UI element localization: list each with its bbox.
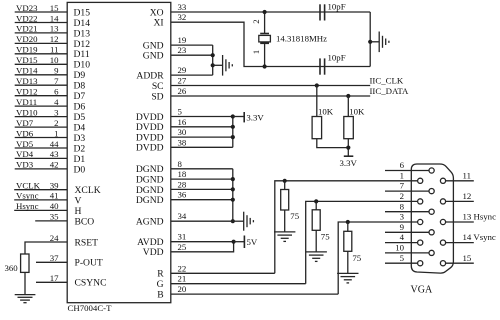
wire SC pin 27 (IIC_CLK net) bbox=[152, 76, 370, 92]
junction node ground tap bbox=[211, 63, 215, 67]
wire VD22 to U1 pin 14 (D14) bbox=[15, 13, 91, 29]
svg-text:14 Vsync: 14 Vsync bbox=[463, 232, 496, 242]
svg-text:1: 1 bbox=[400, 170, 404, 180]
wire U1 pin 36 (DGND) bbox=[136, 190, 233, 206]
svg-text:12: 12 bbox=[50, 34, 59, 44]
wire R riser to VGA pin 1 bbox=[275, 181, 418, 273]
svg-text:G: G bbox=[157, 279, 164, 290]
svg-text:R: R bbox=[157, 269, 164, 280]
wire stub VGA pin 6 bbox=[385, 160, 429, 170]
svg-text:DVDD: DVDD bbox=[136, 143, 164, 154]
svg-text:23: 23 bbox=[178, 45, 187, 55]
VGA pin 8 contact bbox=[429, 209, 434, 214]
svg-text:VD10: VD10 bbox=[16, 107, 38, 117]
svg-text:D3: D3 bbox=[74, 133, 86, 144]
resistor 10K (IIC_CLK pull-up) bbox=[312, 86, 348, 148]
wire VD14 to U1 pin 9 (D9) bbox=[15, 66, 86, 82]
resistor 75 (B terminator) bbox=[344, 222, 352, 273]
svg-text:6: 6 bbox=[54, 87, 59, 97]
wire U1 pin 5 (DVDD) bbox=[136, 107, 233, 123]
svg-text:IIC_CLK: IIC_CLK bbox=[370, 76, 404, 86]
svg-text:12: 12 bbox=[463, 191, 472, 201]
ground (75 ohm G) bbox=[306, 252, 327, 262]
svg-text:VD12: VD12 bbox=[16, 87, 38, 97]
svg-text:14.31818MHz: 14.31818MHz bbox=[276, 34, 327, 44]
wire VD21 to U1 pin 13 (D13) bbox=[15, 24, 91, 40]
svg-text:3.3V: 3.3V bbox=[246, 112, 264, 122]
svg-text:D6: D6 bbox=[74, 102, 86, 113]
svg-text:VD15: VD15 bbox=[16, 55, 38, 65]
wire U1 pin 34 (AGND) bbox=[136, 211, 233, 227]
VGA pin 12 contact bbox=[440, 199, 445, 204]
wire U1 pin 25 (VDD) bbox=[143, 242, 234, 259]
svg-text:13: 13 bbox=[50, 24, 59, 34]
svg-text:39: 39 bbox=[50, 181, 59, 191]
power 3.3V (pull-up supply) bbox=[340, 156, 358, 168]
wire XI pin 32 (bottom crystal rail) bbox=[153, 12, 370, 66]
ground (75 ohm R) bbox=[274, 232, 295, 242]
resistor 10K (IIC_DATA pull-up) bbox=[344, 96, 354, 156]
svg-text:9: 9 bbox=[400, 222, 405, 232]
svg-text:26: 26 bbox=[178, 86, 187, 96]
wire VD12 to U1 pin 6 (D7) bbox=[15, 87, 86, 103]
svg-text:D8: D8 bbox=[74, 81, 86, 92]
wire U1 pin 19 (GND) bbox=[143, 35, 213, 51]
VGA pin 15 contact bbox=[440, 261, 445, 266]
svg-text:B: B bbox=[157, 290, 163, 301]
junction node IIC_DATA/10K bbox=[346, 94, 350, 98]
resistor 360 bbox=[21, 254, 29, 294]
svg-text:44: 44 bbox=[50, 139, 59, 149]
ground (AGND) bbox=[233, 212, 254, 231]
resistor 75 (R terminator) bbox=[281, 181, 289, 232]
svg-text:VD23: VD23 bbox=[16, 3, 38, 13]
junction node DVDD bus bbox=[231, 125, 235, 129]
wire stub VGA pin 8 bbox=[385, 201, 429, 211]
svg-text:35: 35 bbox=[50, 212, 59, 222]
svg-text:VD6: VD6 bbox=[16, 128, 34, 138]
wire U1 pin 16 (DVDD) bbox=[136, 117, 233, 133]
wire VD3 to U1 pin 42 (D0) bbox=[15, 160, 86, 176]
svg-text:22: 22 bbox=[178, 263, 187, 273]
wire stub VGA pin 7 bbox=[385, 181, 429, 191]
wire to U1 pin 17 (CSYNC) bbox=[36, 273, 107, 289]
svg-text:75: 75 bbox=[290, 211, 299, 221]
wire U1 pin 29 (ADDR) bbox=[136, 65, 212, 81]
svg-text:38: 38 bbox=[178, 137, 187, 147]
svg-text:VD5: VD5 bbox=[16, 139, 34, 149]
VGA pin 4 contact bbox=[418, 240, 423, 245]
svg-text:17: 17 bbox=[50, 273, 59, 283]
svg-text:XI: XI bbox=[153, 18, 163, 29]
wire to U1 pin 37 (P-OUT) bbox=[36, 253, 103, 269]
wire VGA pin 14 Vsync bbox=[446, 232, 496, 242]
junction node GND23 bbox=[211, 53, 215, 57]
wire VD10 to U1 pin 3 (D5) bbox=[15, 107, 86, 123]
svg-text:31: 31 bbox=[178, 232, 187, 242]
svg-text:D12: D12 bbox=[74, 39, 91, 50]
VGA pin 13 contact bbox=[440, 219, 445, 224]
wire VGA pin 12 bbox=[446, 191, 474, 201]
svg-text:16: 16 bbox=[178, 117, 187, 127]
svg-text:5: 5 bbox=[178, 107, 183, 117]
wire GND/ADDR bus vertical bbox=[212, 45, 214, 75]
svg-text:27: 27 bbox=[178, 76, 187, 86]
svg-text:V: V bbox=[75, 195, 82, 206]
wire VD11 to U1 pin 4 (D6) bbox=[15, 97, 86, 113]
svg-text:VD7: VD7 bbox=[16, 118, 34, 128]
wire U1 pin 38 (DVDD) bbox=[136, 137, 233, 153]
svg-text:D0: D0 bbox=[74, 164, 86, 175]
svg-text:24: 24 bbox=[50, 233, 59, 243]
ground (75 ohm B) bbox=[337, 273, 358, 283]
svg-text:75: 75 bbox=[352, 253, 361, 263]
svg-text:D1: D1 bbox=[74, 154, 86, 165]
svg-text:10pF: 10pF bbox=[328, 2, 346, 12]
svg-text:D2: D2 bbox=[74, 143, 86, 154]
svg-text:15: 15 bbox=[50, 3, 59, 13]
wire SD pin 26 (IIC_DATA net) bbox=[151, 86, 370, 102]
svg-text:7: 7 bbox=[54, 76, 59, 86]
VGA pin 1 contact bbox=[418, 178, 423, 183]
svg-text:IIC_DATA: IIC_DATA bbox=[370, 86, 410, 96]
junction node caps/ground bbox=[368, 40, 372, 44]
svg-text:1: 1 bbox=[251, 50, 261, 54]
wire U1 pin 28 (DGND) bbox=[136, 179, 233, 195]
ground (crystal circuit) bbox=[370, 32, 389, 53]
svg-text:VD21: VD21 bbox=[16, 24, 38, 34]
wire U1 pin 18 (DGND) bbox=[136, 169, 233, 185]
svg-text:2: 2 bbox=[54, 118, 58, 128]
wire VCLK to U1 pin 39 (XCLK) bbox=[14, 181, 100, 197]
svg-text:SC: SC bbox=[152, 81, 164, 92]
power 3.3V (DVDD) bbox=[233, 112, 265, 122]
svg-text:30: 30 bbox=[178, 127, 187, 137]
svg-text:14: 14 bbox=[50, 13, 59, 23]
svg-text:VD19: VD19 bbox=[16, 45, 38, 55]
svg-text:2: 2 bbox=[400, 191, 404, 201]
crystal Y1 bbox=[259, 12, 271, 67]
wire DGND bus vertical bbox=[232, 169, 234, 221]
wire RSET to U1 pin 24 bbox=[25, 233, 98, 254]
wire XO pin 33 (top crystal rail) bbox=[150, 2, 370, 18]
svg-text:19: 19 bbox=[178, 35, 187, 45]
svg-text:VCLK: VCLK bbox=[16, 181, 41, 191]
svg-text:SD: SD bbox=[151, 91, 163, 102]
wire VGA pin 15 bbox=[446, 253, 474, 263]
IC U1 CH7004C-T body bbox=[67, 2, 171, 302]
svg-text:36: 36 bbox=[178, 190, 187, 200]
svg-text:360: 360 bbox=[5, 263, 19, 273]
wire DVDD bus vertical bbox=[232, 117, 234, 148]
VGA pin 11 contact bbox=[440, 178, 445, 183]
capacitor C1 10pF (top) bbox=[320, 2, 346, 21]
wire VD19 to U1 pin 11 (D11) bbox=[15, 45, 90, 61]
wire VGA pin 11 bbox=[446, 170, 474, 180]
svg-text:10pF: 10pF bbox=[328, 52, 346, 62]
junction node DGND bus bbox=[231, 198, 235, 202]
svg-text:D11: D11 bbox=[74, 49, 90, 60]
junction node DGND bus bbox=[231, 187, 235, 191]
wire Hsync to U1 pin 40 (H) bbox=[14, 201, 81, 217]
wire VD23 to U1 pin 15 (D15) bbox=[15, 3, 91, 19]
power 5V bbox=[234, 236, 258, 249]
svg-text:13 Hsync: 13 Hsync bbox=[463, 212, 497, 222]
svg-text:8: 8 bbox=[178, 159, 183, 169]
wire right vertical joining caps bbox=[369, 12, 371, 67]
svg-text:D14: D14 bbox=[74, 18, 91, 29]
svg-text:VD4: VD4 bbox=[16, 149, 34, 159]
junction node IIC_CLK/10K bbox=[315, 83, 319, 87]
svg-text:3: 3 bbox=[54, 107, 59, 117]
svg-text:VD11: VD11 bbox=[16, 97, 37, 107]
svg-text:P-OUT: P-OUT bbox=[75, 258, 103, 269]
wire VGA pin 13 Hsync bbox=[446, 212, 496, 222]
svg-text:32: 32 bbox=[178, 12, 187, 22]
svg-text:43: 43 bbox=[50, 149, 59, 159]
svg-text:34: 34 bbox=[178, 211, 187, 221]
svg-text:21: 21 bbox=[178, 274, 187, 284]
wire B riser to VGA pin 3 bbox=[338, 222, 418, 294]
svg-text:DGND: DGND bbox=[136, 195, 164, 206]
svg-text:25: 25 bbox=[178, 242, 187, 252]
svg-text:37: 37 bbox=[50, 253, 59, 263]
wire U1 pin 30 (DVDD) bbox=[136, 127, 233, 143]
svg-text:GND: GND bbox=[143, 51, 164, 62]
VGA pin 2 contact bbox=[418, 199, 423, 204]
VGA pin 7 contact bbox=[429, 189, 434, 194]
svg-text:6: 6 bbox=[400, 160, 405, 170]
svg-text:5: 5 bbox=[400, 253, 405, 263]
svg-text:BCO: BCO bbox=[75, 216, 95, 227]
svg-text:2: 2 bbox=[251, 19, 261, 23]
svg-text:D7: D7 bbox=[74, 91, 86, 102]
svg-text:11: 11 bbox=[463, 170, 471, 180]
svg-text:D5: D5 bbox=[74, 112, 86, 123]
wire stub VGA pin 4 bbox=[385, 232, 418, 242]
wire pin 35 to U1 pin 35 (BCO) bbox=[35, 212, 94, 228]
wire VD7 to U1 pin 2 (D4) bbox=[15, 118, 86, 134]
junction node XO/crystal bbox=[263, 10, 267, 14]
junction node XI/crystal bbox=[263, 64, 267, 68]
svg-text:VD22: VD22 bbox=[16, 13, 38, 23]
VGA pin 14 contact bbox=[440, 240, 445, 245]
svg-text:3: 3 bbox=[400, 212, 405, 222]
svg-text:D10: D10 bbox=[74, 60, 91, 71]
svg-text:10: 10 bbox=[395, 243, 404, 253]
VGA pin 10 contact bbox=[429, 250, 434, 255]
wire U1 pin 20 (B) bbox=[157, 284, 338, 300]
wire U1 pin 8 (DGND) bbox=[136, 159, 233, 175]
capacitor C2 10pF (bottom) bbox=[320, 52, 346, 74]
wire stub VGA pin 5 bbox=[385, 253, 418, 263]
svg-text:11: 11 bbox=[50, 45, 58, 55]
svg-text:5V: 5V bbox=[247, 237, 258, 247]
VGA pin 5 contact bbox=[418, 261, 423, 266]
svg-text:9: 9 bbox=[54, 66, 59, 76]
svg-text:3.3V: 3.3V bbox=[340, 158, 358, 168]
svg-text:H: H bbox=[75, 206, 82, 217]
wire U1 pin 31 (AVDD) bbox=[137, 232, 233, 248]
junction node R line / 75 ohm bbox=[283, 179, 287, 183]
wire Vsync to U1 pin 41 (V) bbox=[14, 191, 81, 207]
junction node DGND bus bbox=[231, 219, 235, 223]
wire U1 pin 22 (R) bbox=[157, 263, 275, 279]
svg-text:Vsync: Vsync bbox=[16, 191, 39, 201]
junction node G line / 75 ohm bbox=[314, 199, 318, 203]
svg-text:4: 4 bbox=[400, 232, 405, 242]
svg-text:CSYNC: CSYNC bbox=[75, 278, 107, 289]
svg-text:VD20: VD20 bbox=[16, 34, 38, 44]
wire VD6 to U1 pin 1 (D3) bbox=[15, 128, 86, 144]
wire VD13 to U1 pin 7 (D8) bbox=[15, 76, 86, 92]
svg-text:28: 28 bbox=[178, 179, 187, 189]
svg-text:20: 20 bbox=[178, 284, 187, 294]
svg-text:D13: D13 bbox=[74, 28, 91, 39]
svg-text:VD3: VD3 bbox=[16, 160, 34, 170]
wire VD4 to U1 pin 43 (D1) bbox=[15, 149, 86, 165]
svg-text:4: 4 bbox=[54, 97, 59, 107]
svg-text:VD13: VD13 bbox=[16, 76, 38, 86]
VGA pin 9 contact bbox=[429, 230, 434, 235]
wire VD20 to U1 pin 12 (D12) bbox=[15, 34, 91, 50]
svg-text:AGND: AGND bbox=[136, 217, 164, 228]
svg-text:D9: D9 bbox=[74, 70, 86, 81]
svg-text:33: 33 bbox=[178, 2, 187, 12]
junction node pull-up join bbox=[346, 146, 350, 150]
svg-text:CH7004C-T: CH7004C-T bbox=[68, 303, 113, 313]
wire U1 pin 23 (GND) bbox=[143, 45, 213, 61]
svg-text:Hsync: Hsync bbox=[16, 201, 39, 211]
svg-text:VDD: VDD bbox=[143, 247, 164, 258]
VGA pin 6 contact bbox=[429, 168, 434, 173]
wire G riser to VGA pin 2 bbox=[306, 201, 418, 283]
junction node B line / 75 ohm bbox=[346, 220, 350, 224]
svg-text:8: 8 bbox=[400, 201, 405, 211]
svg-text:D4: D4 bbox=[74, 123, 86, 134]
svg-text:10: 10 bbox=[50, 55, 59, 65]
junction node AVDD/VDD bbox=[232, 240, 236, 244]
resistor 75 (G terminator) bbox=[312, 201, 320, 252]
ground (GND/ADDR) bbox=[213, 55, 233, 76]
VGA pin 3 contact bbox=[418, 219, 423, 224]
svg-text:18: 18 bbox=[178, 169, 187, 179]
junction node DGND bus bbox=[231, 177, 235, 181]
svg-text:42: 42 bbox=[50, 160, 59, 170]
svg-text:15: 15 bbox=[463, 253, 472, 263]
svg-text:VGA: VGA bbox=[411, 285, 433, 296]
junction node DVDD bus bbox=[231, 135, 235, 139]
svg-text:VD14: VD14 bbox=[16, 66, 38, 76]
svg-text:D15: D15 bbox=[74, 7, 91, 18]
svg-text:29: 29 bbox=[178, 65, 187, 75]
svg-text:40: 40 bbox=[50, 201, 59, 211]
wire stub VGA pin 9 bbox=[385, 222, 429, 232]
svg-text:RSET: RSET bbox=[75, 237, 99, 248]
wire U1 pin 21 (G) bbox=[157, 274, 306, 290]
svg-text:41: 41 bbox=[50, 191, 59, 201]
wire VD15 to U1 pin 10 (D10) bbox=[15, 55, 91, 71]
svg-text:7: 7 bbox=[400, 181, 405, 191]
wire stub VGA pin 10 bbox=[385, 243, 429, 253]
svg-text:ADDR: ADDR bbox=[136, 71, 164, 82]
VGA DB15 connector shell bbox=[411, 164, 453, 273]
svg-text:75: 75 bbox=[321, 231, 330, 241]
svg-text:1: 1 bbox=[54, 128, 58, 138]
ground (RSET 360) bbox=[15, 295, 36, 303]
svg-text:10K: 10K bbox=[318, 107, 334, 117]
wire VD5 to U1 pin 44 (D2) bbox=[15, 139, 86, 155]
svg-text:10K: 10K bbox=[349, 107, 365, 117]
junction node DVDD bus bbox=[231, 114, 235, 118]
